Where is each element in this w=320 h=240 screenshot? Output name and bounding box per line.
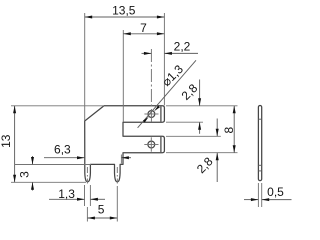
side view bar	[258, 106, 261, 181]
leader and label dia 1,3	[138, 60, 196, 128]
hole H2	[148, 141, 155, 148]
hole H1 horizontal centerline	[144, 113, 158, 115]
pin2 centerline	[116, 167, 118, 184]
pin1 centerline	[86, 167, 88, 184]
svg-text:7: 7	[140, 21, 147, 35]
dimension 13,5	[85, 4, 165, 121]
svg-text:13,5: 13,5	[112, 4, 136, 18]
dimension 0,5 (thickness)	[244, 183, 292, 207]
dimension 2,8 top right (tab1 width)	[166, 80, 238, 134]
svg-text:0,5: 0,5	[267, 185, 284, 199]
svg-text:3: 3	[18, 171, 32, 178]
dimension 13 (left)	[0, 106, 104, 183]
svg-text:5: 5	[98, 203, 105, 217]
tab1 cap inner line	[160, 106, 162, 121]
hole H1	[148, 111, 155, 118]
svg-text:8: 8	[222, 127, 236, 134]
side view joint line 3	[258, 170, 261, 172]
dimension 2,8 bottom right (tab2 width)	[166, 119, 221, 183]
svg-text:1,3: 1,3	[58, 187, 75, 201]
side view joint line 1	[258, 118, 261, 120]
dimension 3 (pin length)	[15, 156, 91, 191]
side view joint line 2	[258, 164, 261, 166]
tab2 cap inner line	[160, 137, 162, 152]
dimension 5 (pin pitch)	[87, 186, 117, 222]
dimension 2,2	[142, 39, 199, 55]
body outline	[85, 106, 165, 182]
svg-text:2,2: 2,2	[174, 39, 191, 53]
svg-text:6,3: 6,3	[54, 142, 71, 156]
dimension 7	[123, 21, 164, 122]
dimension 6,3 (pin outer span)	[44, 142, 131, 163]
hole H2 horizontal centerline	[144, 144, 158, 146]
hole H1 vertical centerline / ext for 2,2	[150, 49, 152, 122]
dimension 1,3 (pin width)	[49, 185, 105, 206]
svg-text:13: 13	[0, 134, 13, 148]
hole H2 vertical centerline	[150, 137, 152, 151]
dimension 8 (tab1 top to tab2 bottom)	[166, 106, 238, 153]
